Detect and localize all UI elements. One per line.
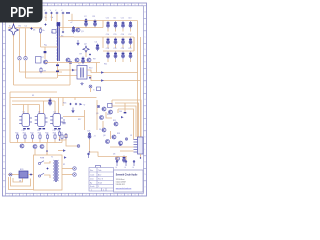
resistor R21	[16, 134, 18, 140]
switch S2	[38, 173, 44, 177]
svg-text:C17: C17	[128, 34, 131, 36]
wire pad stem	[90, 88, 92, 92]
wire T2 out+	[87, 70, 138, 73]
wire	[124, 103, 126, 112]
transistor Q22	[114, 122, 118, 126]
resistor R26	[54, 134, 56, 140]
transistor Q23	[119, 141, 123, 145]
capacitor C4	[96, 44, 99, 52]
wire stub	[122, 29, 124, 32]
svg-text:Oakland, CA 94607: Oakland, CA 94607	[116, 180, 126, 183]
capacitor C16	[122, 38, 125, 46]
svg-text:D3: D3	[113, 154, 115, 156]
arrow down ref	[72, 108, 74, 113]
svg-text:J3: J3	[130, 135, 132, 137]
svg-text:R16: R16	[63, 103, 66, 105]
diode D5	[44, 51, 47, 53]
output transformer T2	[77, 66, 87, 80]
node Va	[44, 23, 46, 25]
wire	[102, 21, 104, 28]
wire shield to mid	[26, 77, 58, 79]
svg-text:L: L	[144, 149, 145, 151]
wire stub	[122, 45, 124, 48]
connector J3	[134, 137, 144, 154]
pad sense	[125, 138, 127, 140]
svg-text:J: J	[145, 124, 146, 126]
wire stub	[130, 59, 132, 62]
node sw tap	[62, 31, 64, 33]
svg-text:R31: R31	[113, 120, 116, 122]
svg-text:U3: U3	[54, 112, 56, 114]
wire to J3	[110, 146, 134, 148]
wire rail P1	[112, 100, 141, 140]
capacitor C10	[107, 21, 110, 29]
wire feedback	[10, 91, 57, 93]
svg-text:R24: R24	[38, 133, 41, 135]
wire hot to mid	[14, 84, 71, 86]
wire stub	[107, 45, 109, 48]
wire rail P3	[112, 106, 136, 137]
wire stub	[54, 140, 56, 143]
wire stub	[39, 140, 41, 143]
wire	[27, 105, 29, 114]
wire	[89, 140, 91, 152]
wire to J3 b	[120, 150, 134, 152]
wire rail P2	[115, 103, 139, 137]
svg-text:www.seventhcircleaudio.com: www.seventhcircleaudio.com	[116, 187, 132, 190]
wire	[116, 157, 118, 161]
svg-text:R21: R21	[15, 133, 18, 135]
op-amp U1	[19, 114, 32, 127]
transistor Q14	[40, 145, 44, 149]
wire stub	[107, 29, 109, 32]
svg-text:PWR: PWR	[40, 158, 45, 160]
wire	[58, 98, 60, 114]
svg-text:R27: R27	[60, 133, 63, 135]
wire stub	[61, 140, 63, 143]
transistor Q13	[33, 145, 37, 149]
resistor R24	[39, 134, 41, 140]
wire T2 out-	[87, 76, 141, 81]
node Vraw	[30, 173, 32, 175]
capacitor C32	[54, 128, 57, 129]
wire rail right top	[103, 20, 138, 22]
wire	[46, 143, 48, 156]
svg-text:2: 2	[103, 190, 104, 192]
node ref B	[75, 103, 77, 105]
transistor Q21	[109, 110, 113, 114]
wire rail B	[74, 36, 103, 38]
svg-text:R33: R33	[117, 133, 120, 135]
wire stub	[122, 59, 124, 62]
transistor Q9	[100, 116, 104, 120]
svg-text:C16: C16	[121, 34, 124, 36]
wire	[34, 149, 36, 155]
arrow T2 in	[72, 69, 75, 72]
arrow aux2	[64, 156, 67, 158]
wire T2 in1	[58, 69, 78, 71]
svg-text:Code: Code	[90, 175, 94, 177]
svg-text:In: In	[9, 26, 11, 28]
svg-text:R17: R17	[78, 119, 81, 121]
arrow aux	[63, 149, 66, 152]
svg-text:R10: R10	[89, 68, 92, 70]
svg-text:510-555-1212: 510-555-1212	[116, 184, 125, 186]
transistor Q4	[66, 58, 70, 62]
capacitor C3b	[72, 26, 75, 34]
wire loop outer	[9, 177, 34, 190]
rotary gain switch SW1	[56, 22, 60, 61]
svg-text:C14: C14	[106, 34, 109, 36]
border frame inner	[6, 6, 144, 194]
svg-text:Rev B: Rev B	[98, 179, 104, 181]
svg-text:Q9: Q9	[96, 113, 98, 115]
transistor Q10	[102, 128, 106, 132]
wire	[44, 175, 50, 178]
wire bus right outer	[137, 21, 139, 140]
capacitor C3	[94, 20, 97, 28]
junction below J3	[140, 157, 141, 158]
wire	[62, 14, 64, 30]
power pin V2	[125, 161, 127, 167]
transistor Q8	[102, 107, 106, 111]
wire power in	[8, 174, 19, 176]
wire input shield	[25, 28, 27, 56]
svg-text:R22: R22	[23, 133, 26, 135]
wire	[71, 14, 73, 21]
wire sec1	[62, 168, 73, 170]
wire rail D drop	[96, 63, 98, 73]
wire	[102, 37, 104, 48]
arrow ref	[80, 103, 83, 105]
svg-text:BR1: BR1	[20, 169, 24, 171]
capacitor C17	[129, 38, 132, 46]
transistor Q12	[44, 60, 48, 64]
junction box top	[46, 150, 47, 151]
switch S1	[38, 161, 44, 165]
node ref A	[69, 103, 71, 105]
pad bias	[97, 105, 99, 107]
svg-text:D4: D4	[19, 181, 21, 183]
power pin V3	[133, 161, 135, 167]
resistor R23	[31, 134, 33, 140]
wire stub	[115, 59, 117, 62]
junction	[89, 151, 90, 152]
pad fuse F1	[9, 173, 12, 176]
svg-text:C10: C10	[106, 18, 109, 20]
current source arrow	[77, 40, 79, 45]
capacitor C34	[43, 128, 46, 129]
svg-text:C21: C21	[128, 48, 131, 50]
wire stub	[47, 140, 49, 143]
wire	[54, 101, 56, 114]
svg-text:R3: R3	[51, 32, 53, 34]
svg-text:R11: R11	[104, 64, 107, 66]
svg-text:C18: C18	[106, 48, 109, 50]
wire	[19, 60, 21, 72]
wire	[133, 37, 135, 51]
wire	[50, 98, 52, 105]
svg-text:U1: U1	[23, 112, 25, 114]
wire below J3	[140, 154, 142, 158]
wire stub	[115, 45, 117, 48]
wire sw tap	[59, 36, 74, 38]
svg-text:PDF: PDF	[10, 4, 33, 21]
capacitor C26	[88, 132, 91, 140]
wire	[66, 140, 78, 146]
wire input hot stub	[13, 23, 15, 26]
svg-text:C11: C11	[113, 18, 116, 20]
wire	[63, 116, 85, 118]
svg-text:Date: Date	[90, 178, 94, 181]
wire T2 in2	[58, 75, 78, 77]
wire	[28, 174, 34, 176]
node supply V2	[50, 12, 53, 15]
svg-text:C15: C15	[113, 34, 116, 36]
node bias	[89, 54, 91, 56]
wire	[102, 121, 104, 128]
ground T2	[80, 82, 83, 85]
wire	[74, 98, 76, 101]
svg-text:C40: C40	[119, 111, 122, 113]
transistor Q17	[116, 157, 120, 161]
wire rail right mid	[103, 36, 134, 38]
wire	[45, 14, 47, 21]
node star B	[83, 46, 89, 52]
svg-text:Scale: Scale	[90, 186, 95, 188]
node out bias	[89, 77, 91, 79]
capacitor C28	[123, 156, 126, 164]
capacitor C23	[49, 99, 52, 107]
wire sec2	[62, 174, 73, 176]
resistor R20	[108, 104, 113, 108]
wire power feed	[98, 156, 127, 158]
junction	[59, 139, 60, 140]
wire	[90, 152, 99, 157]
svg-text:R23: R23	[30, 133, 33, 135]
wire stub	[130, 45, 132, 48]
wire rail right low	[103, 50, 134, 52]
op-amp U2	[35, 114, 48, 127]
svg-text:T1: T1	[51, 157, 53, 159]
capacitor C13	[129, 21, 132, 29]
capacitor C31	[39, 128, 42, 129]
resistor R28	[58, 131, 60, 137]
svg-text:A12: A12	[98, 174, 101, 177]
wire	[40, 34, 42, 47]
wire	[62, 98, 64, 107]
capacitor C8	[56, 65, 59, 67]
capacitor C11	[114, 21, 117, 29]
wire	[84, 110, 86, 130]
svg-text:L: L	[3, 149, 4, 151]
transistor Q3	[75, 58, 79, 62]
svg-text:R9: R9	[44, 71, 46, 73]
wire rail A	[59, 27, 103, 29]
resistor R27	[61, 134, 63, 140]
svg-text:R28: R28	[57, 130, 60, 132]
PDF badge	[0, 0, 43, 23]
wire bottom rail	[10, 142, 62, 144]
op-amp U3	[50, 114, 63, 127]
wire	[85, 52, 87, 57]
pad sec1	[73, 167, 76, 170]
wire section divider	[96, 100, 98, 130]
arrow out-	[101, 79, 104, 82]
wire	[23, 105, 25, 114]
capacitor C15	[114, 38, 117, 46]
svg-text:Q8: Q8	[103, 135, 105, 137]
diode D2	[120, 144, 123, 147]
wire loop inner	[13, 178, 23, 182]
resistor R29	[65, 133, 67, 139]
transistor Q15	[106, 140, 110, 144]
node supply V3	[56, 12, 59, 15]
capacitor C20	[122, 52, 125, 60]
resistor R11b	[97, 87, 101, 91]
wire input hot	[13, 35, 15, 85]
wire loop mid	[11, 177, 31, 186]
wire bus link	[133, 37, 135, 51]
capacitor C9	[56, 71, 59, 73]
resistor R3b	[52, 30, 56, 34]
wire stub	[130, 29, 132, 32]
revision table	[89, 168, 114, 192]
wire hot riser	[69, 63, 71, 86]
svg-text:Title: Title	[98, 169, 101, 172]
wire stub	[115, 29, 117, 32]
wire bus right inner	[140, 37, 142, 142]
svg-text:1234 5th Street: 1234 5th Street	[116, 178, 125, 181]
transistor Q11	[20, 144, 24, 148]
svg-text:R26: R26	[53, 133, 56, 135]
wire	[125, 157, 127, 161]
wire mid center rail	[10, 97, 97, 99]
wire left rail	[9, 92, 11, 143]
pad phantom 1	[18, 57, 21, 60]
wire	[117, 109, 119, 113]
wire q link	[106, 112, 112, 118]
wire input bus	[8, 27, 42, 29]
capacitor C33	[27, 128, 30, 129]
wire cold to mid	[20, 71, 63, 73]
svg-text:Seventh Circle Audio: Seventh Circle Audio	[116, 174, 138, 177]
svg-text:U2: U2	[38, 112, 40, 114]
wire input cold	[19, 28, 21, 56]
wire	[60, 133, 67, 140]
node supply V1	[45, 12, 48, 15]
capacitor C30	[23, 128, 26, 129]
wire aux	[58, 150, 63, 152]
wire	[25, 60, 27, 78]
svg-text:C20: C20	[121, 48, 124, 50]
transistor Q16	[112, 135, 116, 139]
fuse F3	[66, 12, 70, 13]
node box mid	[47, 168, 49, 170]
svg-text:D1: D1	[99, 129, 101, 131]
resistor R2	[39, 28, 41, 34]
power module box	[34, 155, 63, 190]
title block	[114, 170, 144, 192]
resistor R25	[46, 134, 48, 140]
pad phantom 2	[24, 57, 27, 60]
svg-text:C19: C19	[113, 48, 116, 50]
wire rail D	[45, 62, 100, 64]
wire stub	[32, 140, 34, 143]
svg-text:F2: F2	[63, 164, 65, 166]
wire	[111, 100, 113, 106]
svg-text:R19: R19	[107, 114, 110, 116]
svg-text:J: J	[4, 124, 5, 126]
junction	[46, 151, 47, 152]
node star A	[85, 18, 87, 20]
wire rail P4	[118, 109, 134, 140]
capacitor C21	[129, 52, 132, 60]
wire	[44, 47, 46, 59]
capacitor C19	[114, 52, 117, 60]
wire	[85, 21, 87, 28]
capacitor C2	[85, 20, 88, 28]
bridge rectifier BR1	[19, 171, 28, 178]
capacitor C5	[82, 57, 85, 65]
svg-text:Rev: Rev	[90, 170, 93, 172]
wire	[110, 131, 112, 139]
transistor Q1	[76, 28, 80, 32]
svg-text:C13: C13	[128, 18, 131, 20]
svg-text:Rg: Rg	[44, 45, 47, 47]
wire	[39, 105, 41, 114]
wire	[43, 101, 45, 114]
pad test	[77, 145, 80, 148]
relay K1	[36, 57, 42, 64]
node supply V4	[62, 12, 65, 15]
wire rail top mid	[68, 20, 103, 22]
capacitor C19	[62, 119, 65, 124]
node input star J1	[9, 24, 19, 36]
capacitor C14	[107, 38, 110, 46]
svg-text:R25: R25	[45, 133, 48, 135]
wire	[57, 63, 59, 79]
capacitor C41	[124, 112, 127, 113]
arrow out+	[101, 71, 104, 74]
pad sec2	[73, 173, 76, 176]
wire opamp feed 2	[12, 104, 40, 106]
resistor R9	[40, 67, 42, 73]
power transformer T1	[54, 160, 59, 182]
resistor R22	[24, 134, 26, 140]
transistor Q5	[87, 58, 91, 62]
wire opamp feed 1	[12, 100, 55, 102]
svg-text:C26: C26	[87, 131, 90, 133]
wire to switch	[41, 46, 58, 48]
svg-text:1: 1	[98, 186, 99, 188]
wire	[56, 14, 58, 22]
pad T2 gnd	[89, 85, 92, 88]
power pin V1	[116, 161, 118, 167]
svg-text:1: 1	[91, 190, 92, 192]
pin header P8	[88, 153, 90, 158]
diode D6	[121, 116, 124, 118]
capacitor C12	[122, 21, 125, 29]
wire	[59, 137, 61, 140]
regulator U5	[96, 166, 101, 171]
wire stub	[17, 140, 19, 143]
wire into box	[46, 151, 48, 156]
node +48V	[30, 27, 33, 30]
wire	[51, 14, 53, 21]
svg-text:N1: N1	[32, 95, 34, 97]
wire	[94, 21, 96, 28]
